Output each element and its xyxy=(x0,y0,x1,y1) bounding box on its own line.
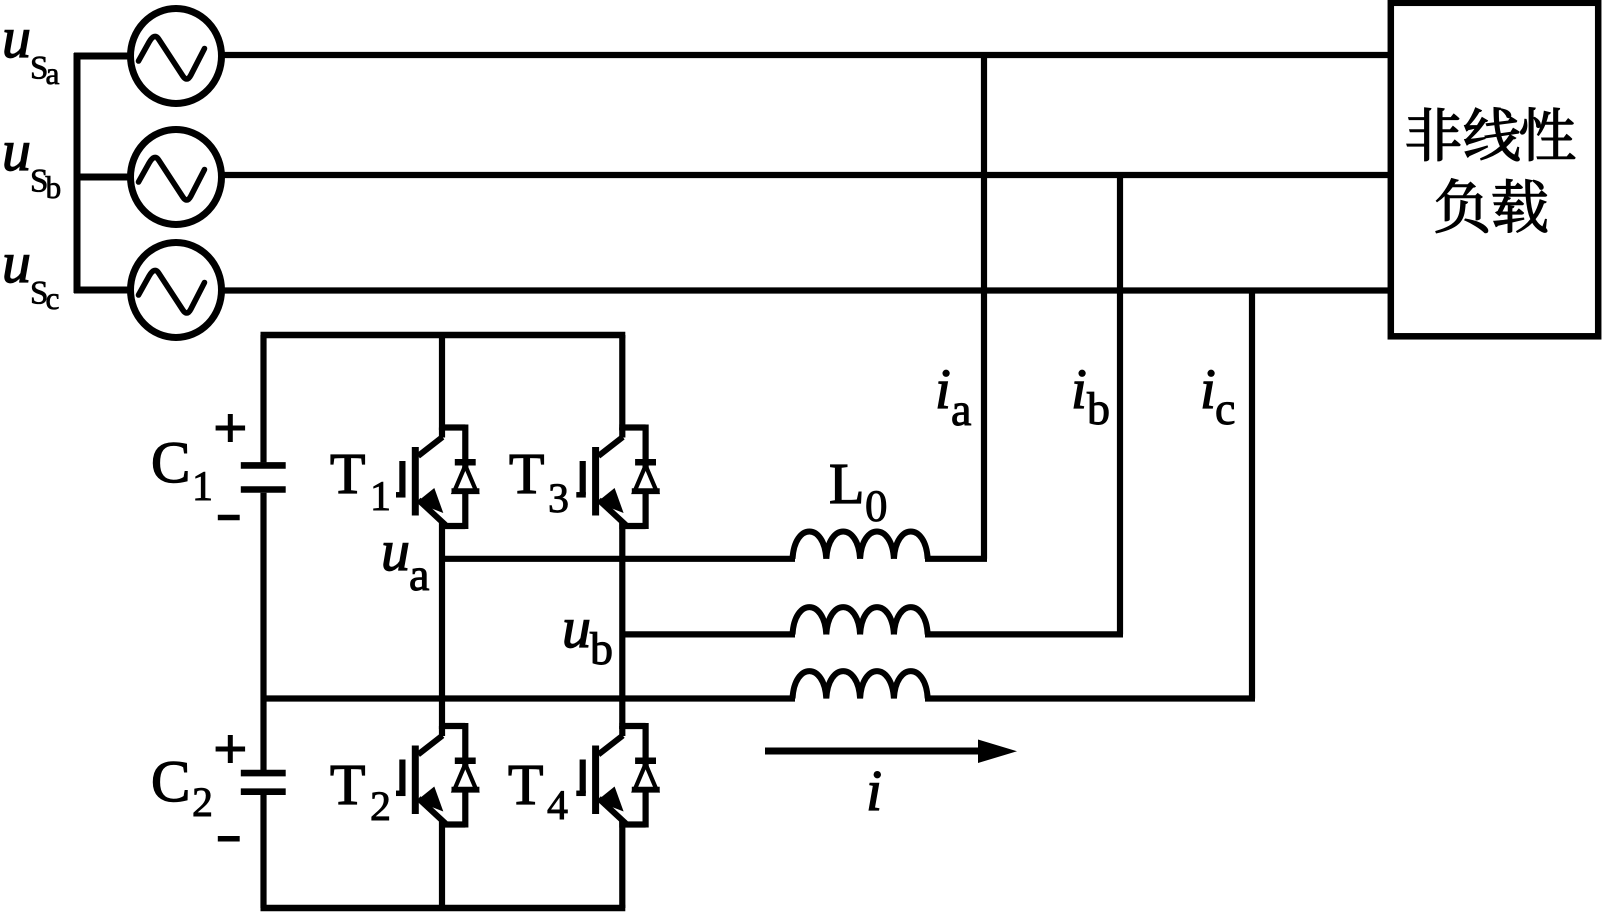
arrow i xyxy=(765,740,1017,764)
wire leg2 T3-T4 xyxy=(619,523,625,729)
wire i_c vertical xyxy=(1249,291,1255,699)
wire stub phase a left xyxy=(74,53,133,60)
wire capacitor branch lower xyxy=(260,795,266,908)
wire leg2 below T4 xyxy=(619,822,625,909)
wire u_b line left xyxy=(622,631,795,637)
label u_a xyxy=(384,543,429,590)
wire capacitor branch upper xyxy=(260,335,266,462)
AC source u_Sb xyxy=(131,130,222,225)
wire left bus vertical xyxy=(74,53,81,293)
label C2 xyxy=(153,762,210,816)
wire leg1 T1-T2 xyxy=(439,523,445,729)
load label line2 负载 xyxy=(1436,179,1547,233)
capacitor C1 xyxy=(241,465,286,489)
wire leg2 above T3 xyxy=(619,335,625,430)
label i_b xyxy=(1074,370,1108,424)
wire i_a vertical xyxy=(981,55,987,559)
transistor T3 (IGBT with diode) xyxy=(576,425,659,530)
wire bridge top rail xyxy=(261,332,626,339)
label C2 plus xyxy=(216,735,246,763)
label L0 xyxy=(831,465,886,521)
label C1 xyxy=(153,443,210,500)
label u_Sa xyxy=(5,30,59,84)
inductor L0 phase b xyxy=(793,607,928,634)
label i xyxy=(869,772,880,810)
inductor L0 phase c xyxy=(793,671,928,698)
wire stub phase b left xyxy=(74,174,133,181)
label u_Sb xyxy=(5,143,60,198)
wire u_a line right xyxy=(925,556,987,562)
label T2 xyxy=(331,766,389,820)
label i_a xyxy=(938,370,971,425)
wire phase a line xyxy=(219,52,1390,58)
wire mid rail right xyxy=(925,695,1255,701)
inductor L0 phase a xyxy=(793,531,928,558)
wire u_b line right xyxy=(925,631,1123,637)
AC source u_Sc xyxy=(131,243,222,338)
wire bridge bottom rail xyxy=(261,905,626,912)
label u_b xyxy=(565,620,611,664)
wire stub phase c left xyxy=(74,287,133,294)
label T4 xyxy=(509,766,567,819)
label u_Sc xyxy=(5,255,59,309)
label i_c xyxy=(1203,370,1234,424)
transistor T4 (IGBT with diode) xyxy=(576,723,659,828)
wire phase b line xyxy=(219,172,1390,178)
transistor T1 (IGBT with diode) xyxy=(396,425,479,530)
capacitor C2 xyxy=(241,773,286,792)
wire i_b vertical xyxy=(1117,175,1123,634)
transistor T2 (IGBT with diode) xyxy=(396,723,479,828)
label T3 xyxy=(510,455,567,512)
label C1 minus xyxy=(218,515,240,521)
load label line1 非线性 xyxy=(1407,108,1575,161)
wire capacitor branch middle xyxy=(260,493,266,770)
label T1 xyxy=(331,455,388,510)
wire mid rail xyxy=(264,695,796,701)
wire u_a line left xyxy=(442,556,795,562)
nonlinear load box xyxy=(1391,3,1598,337)
AC source u_Sa xyxy=(131,9,222,104)
wire phase c line xyxy=(219,287,1390,293)
wire leg1 below T2 xyxy=(439,822,445,909)
label C2 minus xyxy=(218,836,240,842)
wire leg1 above T1 xyxy=(439,335,445,430)
label C1 plus xyxy=(216,414,246,442)
